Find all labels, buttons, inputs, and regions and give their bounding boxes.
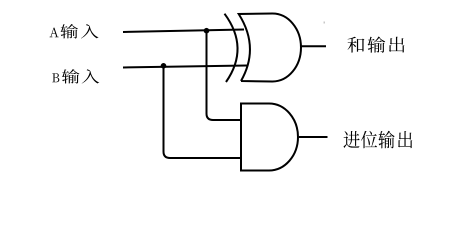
- junction dot on B wire: [161, 63, 167, 69]
- label "和输出" (sum output): [348, 36, 405, 52]
- wire: A branch down to AND gate top input: [207, 31, 242, 120]
- label "A输入" (input A): [50, 24, 99, 38]
- label "进位输出" (carry output): [343, 131, 412, 149]
- wire: XOR output to 和输出: [301, 45, 326, 47]
- wire: B branch down to AND gate bottom input: [164, 66, 242, 158]
- XOR gate (sum): extra input-side arc: [225, 14, 238, 82]
- wire: input B horizontal: [123, 66, 247, 68]
- wire: AND output to 进位输出: [299, 136, 328, 138]
- faint scan speck: [324, 22, 326, 24]
- AND gate (carry): body: [241, 104, 298, 171]
- wire: input A horizontal: [123, 30, 244, 33]
- label "B输入" (input B): [52, 69, 99, 83]
- XOR gate (sum): body: [239, 14, 301, 82]
- junction dot on A wire: [204, 28, 210, 34]
